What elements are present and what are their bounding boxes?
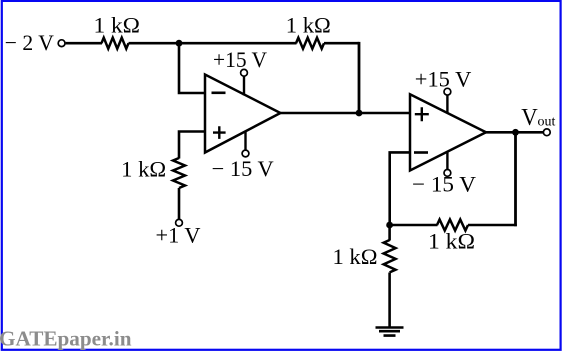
wire node A down to U1 inverting input: [179, 43, 206, 93]
svg-text:+15 V: +15 V: [213, 47, 267, 72]
wire feedback corner up to node D: [514, 132, 517, 226]
junction node C: [386, 222, 393, 229]
U2 +15V supply wire: [446, 95, 448, 113]
op-amp U1 triangle: [205, 75, 280, 153]
U1 -15V supply wire: [244, 132, 246, 151]
wire R4 to ground: [388, 273, 391, 328]
svg-text:+1 V: +1 V: [156, 223, 201, 248]
wire U1 noninverting input to R3: [179, 132, 206, 159]
wire R5 to feedback corner: [468, 224, 517, 227]
resistor R2 (top feedback): [296, 38, 324, 49]
wire node C to R5: [390, 224, 438, 227]
U1 +15V supply circle: [241, 69, 248, 76]
wire U2 inverting input down to node C: [390, 152, 411, 225]
wire corner down to node B: [358, 42, 361, 113]
U2 plus sign (noninverting input): [415, 107, 429, 121]
U2 -15V supply circle: [444, 170, 451, 177]
op-amp U2 triangle: [410, 94, 486, 170]
svg-text:− 15 V: − 15 V: [212, 156, 274, 181]
wire R1 to R2 (top rail): [129, 42, 297, 45]
svg-text:1 kΩ: 1 kΩ: [121, 157, 166, 182]
resistor R4: [384, 240, 396, 272]
resistor R3: [173, 158, 185, 188]
resistor R1: [102, 38, 129, 49]
svg-text:V: V: [521, 104, 538, 131]
wire U2 output to Vout terminal: [485, 131, 543, 134]
svg-text:GATEpaper.in: GATEpaper.in: [0, 327, 132, 351]
junction node D: [512, 129, 519, 136]
svg-text:− 2 V: − 2 V: [5, 30, 54, 55]
svg-text:1 kΩ: 1 kΩ: [286, 13, 331, 38]
svg-text:1 kΩ: 1 kΩ: [94, 12, 141, 37]
ground: [376, 328, 404, 336]
svg-text:− 15 V: − 15 V: [412, 172, 476, 197]
U1 plus sign (noninverting input): [213, 126, 226, 139]
input terminal circle: [58, 40, 65, 47]
U2 -15V supply wire: [446, 152, 448, 170]
wire input terminal to R1: [66, 42, 102, 45]
wire U1 output to U2 noninverting input: [279, 112, 411, 115]
junction node B: [356, 110, 363, 117]
junction node A: [176, 40, 183, 47]
wire node C to R4: [388, 225, 391, 241]
svg-text:1 kΩ: 1 kΩ: [428, 229, 475, 254]
wire R3 to +1V terminal: [178, 188, 181, 220]
U1 +15V supply wire: [243, 76, 245, 95]
U1 minus sign (inverting input): [212, 92, 226, 95]
resistor R5 (feedback): [437, 220, 468, 231]
svg-text:out: out: [538, 115, 556, 130]
U2 minus sign (inverting input): [414, 151, 428, 154]
svg-text:+15 V: +15 V: [415, 67, 472, 92]
Vout terminal circle: [543, 129, 550, 136]
wire R2 to corner: [324, 42, 359, 45]
U1 -15V supply circle: [242, 150, 249, 157]
U2 +15V supply circle: [444, 88, 451, 95]
svg-text:1 kΩ: 1 kΩ: [333, 244, 378, 269]
+1V terminal circle: [176, 219, 183, 226]
